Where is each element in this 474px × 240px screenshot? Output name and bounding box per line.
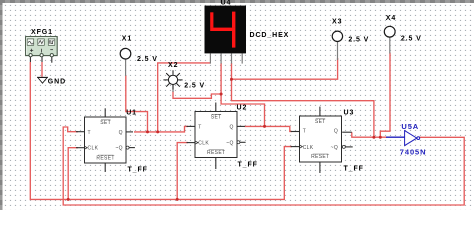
svg-text:XFG1: XFG1 bbox=[31, 29, 53, 36]
svg-text:U4: U4 bbox=[221, 0, 232, 6]
svg-text:DCD_HEX: DCD_HEX bbox=[250, 32, 290, 39]
svg-text:RESET: RESET bbox=[311, 154, 329, 160]
svg-text:T_FF: T_FF bbox=[238, 161, 258, 168]
svg-text:T: T bbox=[303, 129, 306, 135]
svg-text:RESET: RESET bbox=[96, 155, 114, 161]
svg-text:CLK: CLK bbox=[303, 145, 314, 151]
svg-text:Q: Q bbox=[119, 130, 123, 136]
svg-text:X2: X2 bbox=[168, 62, 178, 69]
svg-text:2.5 V: 2.5 V bbox=[137, 56, 158, 63]
svg-text:Q: Q bbox=[334, 129, 338, 135]
svg-text:~Q: ~Q bbox=[226, 141, 234, 147]
svg-text:U1: U1 bbox=[126, 110, 137, 117]
svg-text:T: T bbox=[88, 130, 91, 136]
svg-text:CLK: CLK bbox=[198, 141, 209, 147]
svg-text:RESET: RESET bbox=[207, 150, 225, 156]
svg-text:T_FF: T_FF bbox=[128, 167, 148, 174]
svg-text:X4: X4 bbox=[386, 15, 396, 22]
svg-text:2.5 V: 2.5 V bbox=[401, 36, 422, 43]
svg-text:~Q: ~Q bbox=[115, 146, 123, 152]
svg-text:7405N: 7405N bbox=[400, 147, 427, 156]
svg-text:SET: SET bbox=[315, 119, 326, 125]
svg-text:GND: GND bbox=[48, 79, 66, 86]
svg-text:T: T bbox=[198, 124, 201, 130]
svg-text:T_FF: T_FF bbox=[344, 166, 364, 173]
svg-text:SET: SET bbox=[100, 120, 111, 126]
svg-text:SET: SET bbox=[211, 115, 222, 121]
svg-text:U2: U2 bbox=[237, 105, 248, 112]
svg-text:2.5 V: 2.5 V bbox=[184, 83, 205, 90]
svg-text:X3: X3 bbox=[332, 19, 342, 26]
svg-text:U3: U3 bbox=[344, 109, 355, 116]
svg-text:CLK: CLK bbox=[88, 146, 99, 152]
svg-text:X1: X1 bbox=[122, 35, 132, 42]
svg-text:Q: Q bbox=[229, 124, 233, 130]
svg-text:2.5 V: 2.5 V bbox=[348, 37, 369, 44]
svg-text:U5A: U5A bbox=[401, 122, 419, 131]
svg-text:~Q: ~Q bbox=[331, 145, 339, 151]
